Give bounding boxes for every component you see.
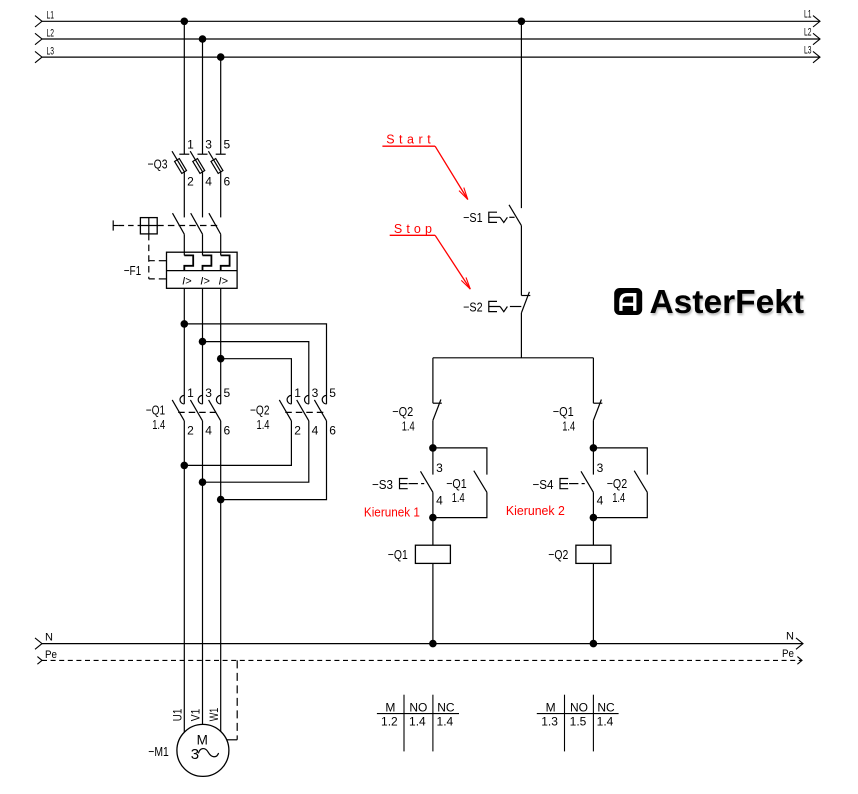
junction pole2 top tap [199, 338, 207, 346]
svg-text:4: 4 [205, 175, 212, 189]
pin 3 Q2 [312, 386, 319, 400]
F1 linkage dashed left [119, 225, 141, 227]
fuse-switch Q3 pole 3-4 [190, 151, 207, 173]
junction S4/aux bottom [590, 514, 598, 522]
contactor Q1 contact 1-2 [172, 395, 184, 420]
wire NC to junction [592, 420, 594, 448]
wire Q1 lower p3 [220, 421, 222, 500]
wire F1 contact to box p2 [202, 234, 204, 255]
node L2 left label [47, 27, 55, 39]
pin 3 Q3 [205, 138, 212, 152]
wire S3 to junction [432, 492, 434, 517]
label -S4 [533, 477, 554, 492]
annotation Start underline [382, 145, 435, 147]
label -S1 [463, 210, 483, 225]
junction pole1 top tap [181, 320, 189, 328]
F1 I> symbol 1 [182, 275, 192, 287]
svg-text:4: 4 [312, 423, 319, 437]
F1 heater pole1 [184, 255, 193, 270]
breaker F1 contact pole2 [191, 213, 203, 234]
svg-text:5: 5 [329, 386, 336, 400]
pushbutton S1 contact [509, 205, 521, 226]
svg-text:3: 3 [191, 746, 199, 763]
svg-text:1.5: 1.5 [570, 715, 587, 729]
svg-text:3: 3 [597, 461, 604, 475]
svg-text:4: 4 [205, 423, 212, 437]
wire junction to coil Q1 [432, 518, 434, 546]
motor M1 phase 3 [191, 746, 199, 763]
annotation Start text [386, 133, 431, 147]
annotation Kierunek 1 [364, 506, 420, 520]
F1 linkage dashed right [157, 225, 217, 227]
label -Q1 main [146, 403, 166, 418]
node Pe left label [45, 649, 57, 661]
wire junction to S4 [592, 448, 594, 475]
wire S4 to junction [592, 492, 594, 517]
svg-text:3: 3 [312, 386, 319, 400]
logo AsterFekt wordmark [650, 283, 805, 320]
wire Q1 lower p2 [202, 421, 204, 482]
motor M1 circle [177, 724, 229, 776]
node L1 left label [47, 10, 55, 22]
node L2 right arrow [813, 33, 820, 44]
wire L3 bus [42, 56, 820, 58]
svg-text:L2: L2 [47, 27, 55, 39]
node Pe left arrow [37, 657, 42, 665]
wire coil Q2 to N [592, 563, 594, 643]
label Q2 NC path 1.4 [402, 418, 415, 433]
svg-text:1.4: 1.4 [257, 417, 270, 432]
svg-text:M: M [385, 700, 395, 714]
label -Q2 aux [607, 476, 628, 491]
node N left label [45, 632, 53, 644]
pin 4 Q3 [205, 175, 212, 189]
node N right label [786, 631, 794, 643]
contactor Q1 contact 5-6 [209, 395, 221, 420]
junction Q1/N [429, 640, 437, 648]
svg-text:U1: U1 [171, 708, 185, 721]
svg-text:NC: NC [437, 700, 455, 714]
junction Q2/N [590, 640, 598, 648]
fuse-switch Q3 pole 5-6 [208, 151, 225, 173]
label -S2 [463, 300, 483, 315]
label -M1 [148, 744, 169, 759]
contactor Q1 NO aux contact [474, 471, 487, 493]
svg-text:5: 5 [224, 138, 231, 152]
svg-text:1.3: 1.3 [541, 715, 558, 729]
contactor Q2 contact 3-4 [297, 395, 309, 420]
node L1 right label [804, 9, 812, 21]
wire branch tee bar [433, 357, 594, 359]
svg-text:N: N [45, 632, 53, 644]
svg-text:6: 6 [224, 175, 231, 189]
coil Q1 [415, 545, 450, 563]
svg-text:1.4: 1.4 [152, 417, 165, 432]
label -Q1 aux [446, 476, 467, 491]
junction L3/pole3 [217, 53, 225, 61]
label Q1 aux path 1.4 [452, 490, 465, 505]
wire S1 to S2 [520, 226, 522, 296]
wire L1 to Q3 pin1 [183, 21, 185, 154]
label -Q2 main [250, 403, 270, 418]
wire S2 to branch tee [520, 313, 522, 358]
svg-text:1.4: 1.4 [402, 418, 415, 433]
wire F1 contact to box p1 [183, 234, 185, 255]
breaker F1 contact pole1 [173, 213, 185, 234]
wire L1 bus [42, 20, 820, 22]
contactor Q2 contact 5-6 [314, 395, 326, 420]
svg-text:L3: L3 [804, 45, 812, 57]
annotation Stop arrow [435, 235, 470, 289]
pin 4 Q2 [312, 423, 319, 437]
wire Q3.4 to F1 [202, 172, 204, 218]
contactor Q1 contact 3-4 [190, 395, 202, 420]
S4 actuator E [560, 479, 585, 489]
F1 heater pole2 [203, 255, 212, 270]
wire Q1 upper p3 [220, 359, 222, 404]
svg-text:−M1: −M1 [148, 744, 169, 759]
svg-text:I>: I> [200, 275, 210, 287]
junction pole3 top tap [217, 355, 225, 363]
svg-text:−S2: −S2 [463, 300, 483, 315]
svg-text:−Q1: −Q1 [446, 476, 467, 491]
F1 manual operator square [140, 218, 157, 234]
annotation Stop underline [390, 234, 435, 236]
wire pole3 to motor W1 [220, 500, 222, 732]
svg-text:3: 3 [205, 138, 212, 152]
svg-text:−Q2: −Q2 [607, 476, 628, 491]
svg-text:−S3: −S3 [372, 477, 393, 492]
label Q1 path 1.4 [152, 417, 165, 432]
junction pole3 bottom tap [217, 496, 225, 504]
pin 3 S3 [436, 461, 443, 475]
pin 1 Q1 [187, 386, 194, 400]
svg-text:L2: L2 [804, 26, 812, 38]
coil Q2 [576, 545, 611, 563]
svg-text:3: 3 [205, 386, 212, 400]
node L2 left arrow [35, 33, 42, 44]
node L3 left label [47, 46, 55, 58]
wire tee to NC Q1 [592, 358, 594, 403]
svg-text:I>: I> [182, 275, 192, 287]
wire F1.6 down [220, 288, 222, 358]
S3 actuator E [400, 479, 425, 489]
wire Q2.2 to pole1 [184, 421, 291, 466]
wire Q2.6 to pole3 [221, 421, 327, 500]
svg-text:Pe: Pe [782, 648, 794, 660]
node Pe right label [782, 648, 794, 660]
svg-text:−Q1: −Q1 [146, 403, 166, 418]
label Q2 path 1.4 [257, 417, 270, 432]
pin 4 Q1 [205, 423, 212, 437]
svg-text:1: 1 [187, 138, 194, 152]
node N left arrow [35, 638, 42, 649]
S2 actuator E [489, 301, 522, 311]
svg-text:−Q3: −Q3 [148, 157, 168, 172]
svg-text:Pe: Pe [45, 649, 57, 661]
terminal label U1 [171, 708, 185, 721]
svg-text:2: 2 [187, 175, 194, 189]
pin 2 Q3 [187, 175, 194, 189]
svg-text:Stop: Stop [394, 222, 432, 236]
wire Q1 upper p1 [183, 324, 185, 404]
F1 operator terminal [113, 220, 118, 230]
junction S4/aux top [590, 444, 598, 452]
F1 heater pole3 [221, 255, 230, 270]
pushbutton S4 contact [581, 471, 593, 492]
wire NC to junction [432, 420, 434, 448]
logo AsterFekt icon [614, 288, 642, 315]
wire Q1 upper p2 [202, 342, 204, 404]
svg-text:NO: NO [570, 700, 588, 714]
label -F1 [124, 263, 142, 278]
junction pole2 bottom tap [199, 478, 207, 486]
terminal label V1 [189, 708, 203, 721]
label Q2 aux path 1.4 [612, 490, 625, 505]
svg-text:1.4: 1.4 [437, 715, 454, 729]
wire PE to motor [226, 739, 237, 741]
svg-text:6: 6 [329, 423, 336, 437]
svg-text:5: 5 [224, 386, 231, 400]
wire Q3.2 to F1 [183, 172, 185, 218]
wire Q3.6 to F1 [220, 172, 222, 218]
pin 6 Q2 [329, 423, 336, 437]
junction L1/pole1 [181, 18, 189, 26]
svg-text:NC: NC [597, 700, 615, 714]
svg-text:I>: I> [219, 275, 229, 287]
node L3 right arrow [813, 51, 820, 62]
wire tee to NC Q2 [432, 358, 434, 403]
pin 2 Q1 [187, 423, 194, 437]
label -Q3 [148, 157, 168, 172]
svg-text:N: N [786, 631, 794, 643]
label Q1 NC path 1.4 [562, 418, 575, 433]
contactor Q2 NO aux contact [634, 471, 647, 493]
svg-text:M: M [546, 700, 556, 714]
contactor Q2 contact 1-2 [279, 395, 291, 420]
pushbutton S3 contact [421, 471, 433, 492]
svg-text:L1: L1 [804, 9, 812, 21]
wire PE drop dashed [236, 660, 238, 739]
svg-text:3: 3 [436, 461, 443, 475]
F1 trip link upper [149, 260, 167, 262]
svg-text:−S1: −S1 [463, 210, 483, 225]
junction S3/aux top [429, 444, 437, 452]
pin 5 Q1 [224, 386, 231, 400]
svg-text:L3: L3 [47, 46, 55, 58]
F1 I> symbol 2 [200, 275, 210, 287]
svg-text:1: 1 [294, 386, 301, 400]
wire F1.2 down [183, 288, 185, 324]
pin 1 Q3 [187, 138, 194, 152]
node N right arrow [796, 638, 803, 649]
svg-text:4: 4 [597, 494, 604, 508]
svg-text:−Q1: −Q1 [553, 404, 574, 419]
wire L1 tap to S1 [520, 21, 522, 208]
annotation Kierunek 2 [506, 504, 565, 518]
svg-text:1.4: 1.4 [452, 490, 465, 505]
svg-text:1.2: 1.2 [381, 715, 398, 729]
overload relay F1 box [167, 252, 238, 288]
S1 actuator E [489, 212, 515, 222]
wire pole3 to Q2.1 [221, 359, 292, 404]
contact cross-reference table Q1 [377, 695, 459, 752]
motor M1 sine [198, 749, 218, 757]
junction L1/control [518, 18, 526, 26]
wire L3 to Q3 pin5 [220, 57, 222, 154]
svg-text:−Q2: −Q2 [250, 403, 270, 418]
label -Q2 coil [548, 547, 568, 562]
annotation Stop text [394, 222, 432, 236]
wire Pe bus dashed [42, 659, 802, 661]
label -Q1 coil [388, 547, 408, 562]
wire pole2 to Q2.3 [203, 342, 309, 404]
svg-text:1.4: 1.4 [597, 715, 614, 729]
svg-text:L1: L1 [47, 10, 55, 22]
wire coil Q1 to N [432, 563, 434, 643]
svg-text:1.4: 1.4 [562, 418, 575, 433]
pin 5 Q2 [329, 386, 336, 400]
wire aux branch Q2 [593, 448, 647, 518]
wire junction to S3 [432, 448, 434, 475]
wire F1.4 down [202, 288, 204, 341]
pin 6 Q1 [224, 423, 231, 437]
svg-text:−Q2: −Q2 [548, 547, 568, 562]
svg-text:1: 1 [187, 386, 194, 400]
wire pole1 to motor U1 [183, 465, 185, 732]
svg-text:1.4: 1.4 [612, 490, 625, 505]
node Pe right arrow [797, 657, 802, 665]
svg-text:−F1: −F1 [124, 263, 142, 278]
junction S3/aux bottom [429, 514, 437, 522]
pin 2 Q2 [294, 423, 301, 437]
junction L2/pole2 [199, 35, 207, 43]
Q1 linkage dashed [178, 411, 218, 413]
pushbutton S2 contact [521, 292, 530, 313]
svg-text:2: 2 [187, 423, 194, 437]
svg-text:1.4: 1.4 [409, 715, 426, 729]
terminal label W1 [207, 707, 221, 721]
contact cross-reference table Q2 [537, 695, 619, 752]
node L1 left arrow [35, 16, 42, 27]
junction pole1 bottom tap [181, 462, 189, 470]
svg-text:Kierunek 1: Kierunek 1 [364, 506, 420, 520]
breaker F1 contact pole3 [209, 213, 221, 234]
wire Q1 lower p1 [183, 421, 185, 466]
svg-text:−S4: −S4 [533, 477, 554, 492]
node L1 right arrow [813, 16, 820, 27]
pin 3 S4 [597, 461, 604, 475]
svg-text:−Q1: −Q1 [388, 547, 408, 562]
annotation Start arrow [435, 146, 468, 199]
pin 1 Q2 [294, 386, 301, 400]
pin 6 Q3 [224, 175, 231, 189]
svg-text:−Q2: −Q2 [392, 404, 413, 419]
svg-text:W1: W1 [207, 707, 221, 721]
svg-text:Kierunek 2: Kierunek 2 [506, 504, 565, 518]
wire F1 contact to box p3 [220, 234, 222, 255]
contactor Q2 NC interlock contact [433, 400, 442, 421]
wire L2 to Q3 pin3 [202, 39, 204, 154]
node L3 left arrow [35, 51, 42, 62]
node L3 right label [804, 45, 812, 57]
svg-text:NO: NO [409, 700, 427, 714]
wire aux branch Q1 [433, 448, 487, 518]
svg-text:6: 6 [224, 423, 231, 437]
pin 5 Q3 [224, 138, 231, 152]
pin 3 Q1 [205, 386, 212, 400]
pin 4 S4 [597, 494, 604, 508]
svg-text:V1: V1 [189, 708, 203, 721]
label -S3 [372, 477, 393, 492]
svg-text:4: 4 [436, 494, 443, 508]
wire Q2.4 to pole2 [203, 421, 309, 482]
svg-text:2: 2 [294, 423, 301, 437]
fuse-switch Q3 pole 1-2 [172, 151, 189, 173]
F1 trip link lower [149, 278, 167, 280]
label -Q2 NC [392, 404, 413, 419]
wire L2 bus [42, 38, 820, 40]
wire N bus [42, 643, 803, 645]
node L2 right label [804, 26, 812, 38]
motor M1 letter M [197, 733, 208, 748]
Q2 linkage dashed [285, 411, 324, 413]
pin 4 S3 [436, 494, 443, 508]
contactor Q1 NC interlock contact [593, 400, 602, 421]
wire pole1 to Q2.5 [184, 324, 326, 404]
wire junction to coil Q2 [592, 518, 594, 546]
wire pole2 to motor V1 [202, 482, 204, 724]
F1 I> symbol 3 [219, 275, 229, 287]
F1 trip linkage vertical dashed [148, 234, 150, 279]
label -Q1 NC [553, 404, 574, 419]
svg-text:AsterFekt: AsterFekt [650, 283, 805, 320]
